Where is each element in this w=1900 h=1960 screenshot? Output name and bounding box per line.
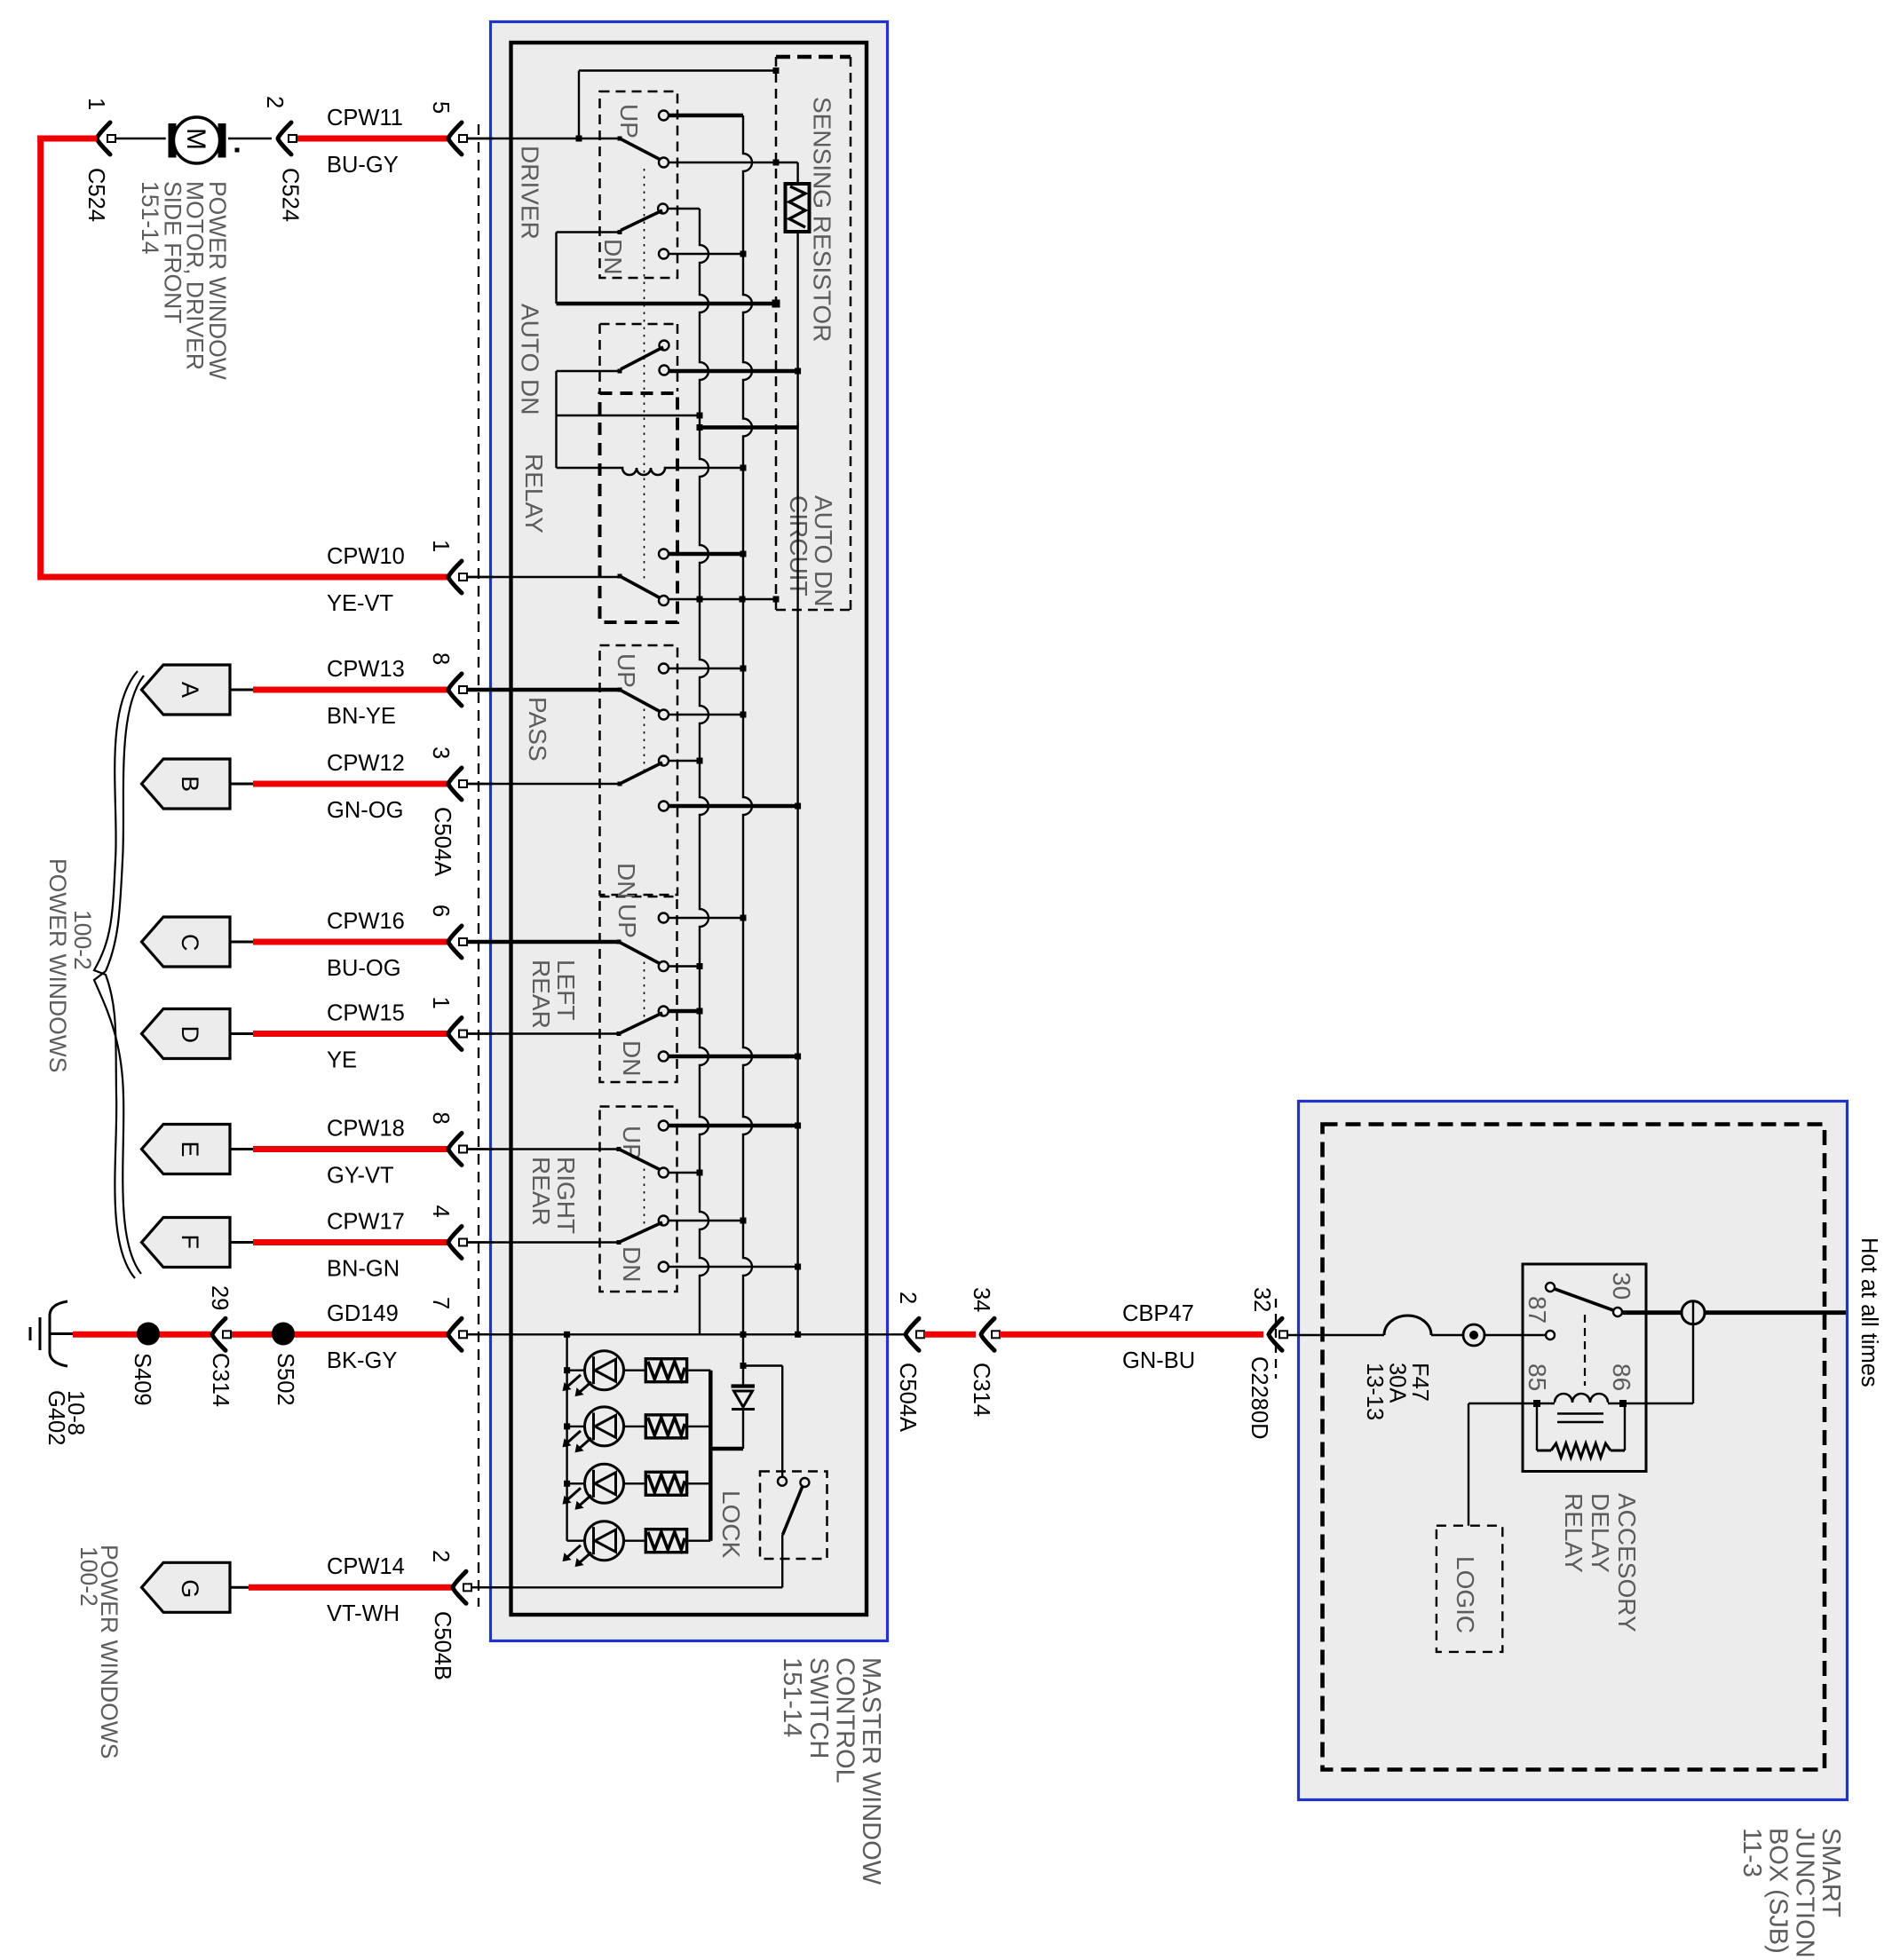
svg-text:DRIVER: DRIVER xyxy=(517,146,544,240)
fuse F47 30A xyxy=(1384,1316,1431,1335)
driver UP blade-tip contact xyxy=(659,158,669,168)
motor brush right xyxy=(218,123,226,158)
svg-text:CBP47: CBP47 xyxy=(1122,1301,1194,1326)
red wire to C314 xyxy=(924,1332,976,1338)
svg-text:AUTO DN: AUTO DN xyxy=(517,304,544,415)
svg-text:CPW11: CPW11 xyxy=(327,106,403,130)
RR DN blade-tip contact xyxy=(659,1216,669,1226)
wire CPW18 xyxy=(253,1146,448,1152)
relay coil xyxy=(1533,1400,1540,1407)
coil core line 2 xyxy=(1557,1421,1603,1424)
stub xyxy=(669,760,700,762)
RR DN blade xyxy=(619,1222,662,1243)
svg-text:LOCK: LOCK xyxy=(717,1490,745,1559)
svg-text:4: 4 xyxy=(428,1205,453,1218)
thick jog to diode branch xyxy=(710,1447,743,1451)
svg-text:10-8: 10-8 xyxy=(63,1390,88,1435)
svg-text:DN: DN xyxy=(599,239,627,274)
connector terminal A xyxy=(142,665,231,715)
svg-text:C: C xyxy=(177,934,203,952)
thick stub auto-dn xyxy=(669,369,798,374)
svg-text:C2280D: C2280D xyxy=(1247,1356,1271,1440)
wire 86 to circle-junction xyxy=(1623,1403,1693,1404)
pass UP contact xyxy=(659,664,669,674)
relay armature dashed xyxy=(1584,1315,1586,1386)
svg-text:SENSING RESISTOR: SENSING RESISTOR xyxy=(809,97,836,342)
pass DN blade xyxy=(620,763,662,784)
driver DN contact xyxy=(659,249,669,259)
relay pivot terminal xyxy=(1546,1283,1555,1292)
stub driver DN xyxy=(669,253,743,255)
LED 4 xyxy=(567,1539,585,1541)
connector C314 pin 34 xyxy=(981,1318,994,1350)
AUTO DN CIRCUIT dashed box xyxy=(776,55,851,59)
connector pin 6 xyxy=(448,926,462,958)
junction b2 coil xyxy=(740,465,747,471)
svg-text:S409: S409 xyxy=(130,1353,154,1406)
junction lock branch xyxy=(740,1363,747,1369)
auto-dn blade-tip contact xyxy=(660,341,669,351)
svg-text:YE: YE xyxy=(327,1048,357,1073)
svg-text:CPW17: CPW17 xyxy=(327,1210,405,1235)
svg-text:5: 5 xyxy=(428,101,453,114)
lock to CPW14 xyxy=(781,1535,783,1587)
svg-text:BN-YE: BN-YE xyxy=(327,704,396,729)
svg-text:VT-WH: VT-WH xyxy=(327,1601,400,1626)
svg-text:BN-GN: BN-GN xyxy=(327,1257,400,1282)
thick wire pin30 out xyxy=(1622,1310,1682,1315)
LR UP blade xyxy=(619,942,662,965)
master window control switch outer box xyxy=(491,22,888,1641)
splice S409 xyxy=(137,1323,160,1346)
svg-text:CPW15: CPW15 xyxy=(327,1001,405,1026)
svg-text:LEFTREAR: LEFTREAR xyxy=(527,960,580,1029)
svg-text:1: 1 xyxy=(83,98,108,110)
lock switch branch wire xyxy=(743,1364,782,1366)
svg-text:2: 2 xyxy=(428,1550,453,1562)
connector pin 4 xyxy=(448,1227,462,1259)
relay dashed box (bold) xyxy=(600,393,678,622)
resistor LED2 xyxy=(645,1415,686,1438)
connector C2280D pin 32 xyxy=(1269,1318,1282,1350)
SJB inner dashed box xyxy=(1323,1125,1825,1770)
svg-text:AUTO DNCIRCUIT: AUTO DNCIRCUIT xyxy=(785,495,837,607)
wire CPW14 inside box xyxy=(467,1586,782,1588)
smart junction box (SJB) outer box xyxy=(1299,1102,1848,1800)
connector C314 inline xyxy=(212,1318,226,1350)
connector pin 8 xyxy=(448,1134,462,1166)
wire CPW16 xyxy=(253,939,448,945)
thick wire auto-dn circuit feed xyxy=(700,425,798,430)
junction b2 xyxy=(740,251,747,257)
svg-text:CPW18: CPW18 xyxy=(327,1117,405,1142)
LR UP blade-tip contact xyxy=(659,961,669,971)
auto-dn blade xyxy=(621,347,663,369)
svg-text:POWER WINDOWS: POWER WINDOWS xyxy=(44,858,71,1072)
relay terminal 87 xyxy=(1546,1331,1555,1340)
svg-text:S502: S502 xyxy=(273,1353,297,1406)
wire CPW14 xyxy=(249,1585,453,1591)
svg-text:2: 2 xyxy=(262,96,287,108)
auto-dn contact xyxy=(660,366,669,375)
svg-text:CPW12: CPW12 xyxy=(327,751,405,776)
diode D1 xyxy=(742,1334,744,1385)
wire left loop lower xyxy=(555,371,557,468)
wire GD149 inside box xyxy=(467,1333,866,1335)
stub driver DN tip xyxy=(669,208,700,209)
svg-text:CPW14: CPW14 xyxy=(327,1554,405,1579)
junction at auto-dn box xyxy=(773,67,780,74)
wire auto-dn pivot loop xyxy=(557,370,621,372)
grommet xyxy=(1463,1324,1484,1346)
RR UP blade-tip contact xyxy=(659,1168,669,1178)
svg-text:LOGIC: LOGIC xyxy=(1452,1556,1479,1633)
LED feed rail xyxy=(566,1334,567,1540)
lock switch dashed box xyxy=(760,1472,827,1560)
svg-text:DN: DN xyxy=(618,1040,645,1076)
connector pin 3 xyxy=(448,768,462,800)
svg-text:B: B xyxy=(177,776,203,792)
RR UP blade xyxy=(619,1150,662,1172)
stub RR DN xyxy=(669,1266,798,1268)
mech link dotted pass xyxy=(644,701,645,772)
wire CPW11 inside box xyxy=(467,138,620,139)
connector pin 1 xyxy=(448,1018,462,1050)
connector pin 8 xyxy=(448,674,462,706)
svg-text:BK-GY: BK-GY xyxy=(327,1348,397,1373)
pass UP blade-tip contact xyxy=(659,710,669,720)
bus rail b1 xyxy=(700,209,709,1334)
relay contact xyxy=(659,549,669,559)
connector terminal F xyxy=(142,1218,231,1268)
wire row 468 xyxy=(557,415,701,416)
wire CPW18 inside box xyxy=(467,1148,619,1150)
wire 85 to logic xyxy=(1469,1403,1537,1404)
svg-text:CPW16: CPW16 xyxy=(327,909,405,934)
thick stub pass DN xyxy=(669,804,798,809)
driver DN blade-tip contact xyxy=(658,204,668,214)
svg-text:CPW13: CPW13 xyxy=(327,657,405,682)
wire driver tip to sensing resistor xyxy=(669,162,798,163)
mech link dotted RR xyxy=(644,1161,645,1229)
wire into SJB xyxy=(1287,1334,1384,1336)
svg-text:C314: C314 xyxy=(208,1353,233,1407)
svg-text:GN-OG: GN-OG xyxy=(327,798,403,823)
master window control switch inner box xyxy=(511,43,867,1615)
LR DN contact xyxy=(659,1052,669,1062)
relay coil (master switch) xyxy=(557,468,744,475)
accessory delay relay box xyxy=(1523,1264,1646,1472)
ground stem xyxy=(50,1332,73,1335)
svg-text:1: 1 xyxy=(428,540,453,552)
right-rear switch dashed box xyxy=(600,1107,677,1292)
svg-text:30: 30 xyxy=(1608,1272,1635,1300)
RR UP contact xyxy=(659,1121,669,1131)
svg-text:BU-GY: BU-GY xyxy=(327,153,399,178)
wire CPW13 xyxy=(253,687,448,693)
junction r3 xyxy=(795,368,801,375)
LED collector rail (thick) xyxy=(709,1371,713,1541)
svg-text:GD149: GD149 xyxy=(327,1301,399,1326)
svg-text:6: 6 xyxy=(428,905,453,917)
connector C524 pin1 xyxy=(97,122,110,154)
svg-text:29: 29 xyxy=(207,1285,232,1310)
junction at auto-dn box edge xyxy=(772,300,780,308)
svg-text:M: M xyxy=(181,128,210,150)
connector dashes C2280D xyxy=(1275,1299,1277,1379)
svg-text:UP: UP xyxy=(615,104,643,138)
svg-text:DN: DN xyxy=(613,863,640,898)
connector pin 2 xyxy=(453,1571,466,1603)
svg-text:C524: C524 xyxy=(83,168,108,222)
auto-dn switch dashed box xyxy=(600,323,678,326)
wire riser xyxy=(578,71,580,139)
connector terminal D xyxy=(142,1009,231,1059)
motor circle xyxy=(174,117,220,163)
svg-text:GN-BU: GN-BU xyxy=(1122,1348,1195,1373)
mech link dotted LR xyxy=(644,954,645,1021)
thick wire driver DN to auto-dn circuit xyxy=(557,302,777,306)
driver UP/DN switch dashed box xyxy=(600,91,678,278)
svg-text:32: 32 xyxy=(1249,1287,1274,1312)
connector C524 pin2 xyxy=(278,122,291,154)
svg-text:1: 1 xyxy=(428,997,453,1009)
wire CPW12 xyxy=(253,781,448,787)
wire resistor top xyxy=(796,162,798,184)
LR DN blade xyxy=(619,1013,662,1034)
svg-text:D: D xyxy=(177,1026,203,1044)
wire GD149 to C504A xyxy=(866,1333,906,1335)
svg-text:Hot at all times: Hot at all times xyxy=(1856,1237,1881,1387)
wire CPW12 inside box xyxy=(467,783,620,785)
wire DN loop top xyxy=(557,231,621,233)
svg-text:UP: UP xyxy=(613,653,640,688)
lock switch xyxy=(778,1477,787,1486)
ground bar3 xyxy=(29,1327,32,1340)
svg-text:3: 3 xyxy=(428,747,453,759)
resistor LED4 xyxy=(645,1529,686,1553)
svg-text:87: 87 xyxy=(1524,1296,1551,1324)
thick stub driver UP xyxy=(669,114,743,118)
connector C504 dashed line xyxy=(478,124,479,1607)
connector terminal C xyxy=(142,917,231,967)
resistor zigzag xyxy=(1551,1443,1611,1458)
svg-text:G: G xyxy=(177,1579,203,1598)
ground G402 xyxy=(50,1301,67,1366)
pass UP blade xyxy=(620,690,662,713)
diode cathode bar xyxy=(732,1408,755,1411)
diode anode bar xyxy=(732,1384,756,1387)
circled junction symbol xyxy=(1682,1301,1705,1324)
svg-text:C504A: C504A xyxy=(895,1363,920,1432)
power window motor driver side front xyxy=(113,138,166,139)
LED 1 xyxy=(564,1367,570,1373)
driver UP contact xyxy=(659,111,669,121)
connector terminal E xyxy=(142,1125,231,1174)
junction b1 xyxy=(697,413,703,419)
svg-text:F: F xyxy=(177,1235,203,1250)
bus rail b2 xyxy=(743,115,752,1334)
thick wire hot at all times xyxy=(1705,1310,1846,1315)
relay internal resistor xyxy=(1536,1403,1538,1450)
svg-text:7: 7 xyxy=(428,1297,453,1309)
svg-text:DN: DN xyxy=(618,1246,645,1282)
resistor LED3 xyxy=(645,1472,686,1495)
connector terminal G xyxy=(142,1562,231,1612)
svg-text:PASS: PASS xyxy=(524,697,551,762)
connector C504A pin 2 (right side) xyxy=(906,1318,919,1350)
svg-text:UP: UP xyxy=(614,904,641,938)
mechanical link dotted driver xyxy=(644,169,645,581)
LR UP contact xyxy=(659,913,669,923)
top rail wire xyxy=(579,69,776,71)
wire CPW15 xyxy=(253,1031,448,1037)
red wire GD149 xyxy=(73,1332,212,1338)
red wire CBP47 xyxy=(1000,1332,1263,1338)
svg-text:100-2: 100-2 xyxy=(69,910,96,970)
svg-text:BU-OG: BU-OG xyxy=(327,956,401,981)
connector pin 7 xyxy=(448,1318,462,1350)
thick stub LR DN xyxy=(669,1055,798,1059)
svg-text:RELAY: RELAY xyxy=(520,454,548,533)
connector terminal B xyxy=(142,759,231,809)
driver DN blade xyxy=(621,210,662,231)
wire CPW15 inside box xyxy=(467,1032,619,1034)
connector pin 1 xyxy=(448,561,462,593)
rail r3 xyxy=(796,232,798,1334)
ground bar2 xyxy=(39,1317,42,1350)
junction CPW11/top rail xyxy=(576,136,582,142)
wire CPW17 inside box xyxy=(467,1241,619,1243)
splice S502 xyxy=(272,1323,295,1346)
svg-text:C504B: C504B xyxy=(430,1611,455,1680)
svg-text:C504A: C504A xyxy=(430,807,455,876)
wire CPW13 inside box xyxy=(467,688,620,692)
LED 3 xyxy=(564,1481,570,1487)
coil core line 1 xyxy=(1557,1412,1603,1415)
motor brush left xyxy=(169,123,177,158)
pass DN contact xyxy=(659,802,669,811)
thick stub xyxy=(669,1009,700,1014)
svg-text:85: 85 xyxy=(1524,1363,1551,1391)
svg-text:YE-VT: YE-VT xyxy=(327,591,393,616)
svg-text:RIGHTREAR: RIGHTREAR xyxy=(527,1157,580,1234)
pass DN blade-tip contact xyxy=(659,756,669,766)
RR DN contact xyxy=(659,1262,669,1272)
relay contact 30 xyxy=(1613,1308,1622,1316)
svg-text:C314: C314 xyxy=(969,1363,994,1417)
motor polarity dot xyxy=(235,148,240,153)
red loop wire to CPW10 xyxy=(37,136,44,578)
relay switch blade xyxy=(620,576,662,599)
wire relay tip row xyxy=(669,598,776,600)
LR DN blade-tip contact xyxy=(659,1007,669,1016)
red wire CPW11 segment xyxy=(292,136,448,142)
lock blade xyxy=(783,1486,804,1535)
LED 2 xyxy=(564,1423,570,1429)
resistor LED1 xyxy=(645,1359,686,1382)
svg-text:8: 8 xyxy=(428,1112,453,1125)
left-rear switch dashed box xyxy=(600,897,677,1082)
wire DN loop left xyxy=(555,233,557,304)
svg-text:C524: C524 xyxy=(278,168,303,222)
thick stub RR UP xyxy=(669,1124,798,1128)
pass switch dashed box xyxy=(600,645,678,895)
connector pin 5 xyxy=(448,122,462,154)
svg-text:CPW10: CPW10 xyxy=(327,544,405,569)
svg-text:86: 86 xyxy=(1608,1363,1635,1391)
svg-text:E: E xyxy=(177,1142,203,1158)
sensing resistor xyxy=(786,184,810,232)
relay blade-tip contact xyxy=(659,596,669,605)
driver UP switch blade xyxy=(620,138,662,161)
svg-text:2: 2 xyxy=(895,1292,920,1304)
stub xyxy=(669,714,743,715)
svg-text:GY-VT: GY-VT xyxy=(327,1164,394,1189)
svg-text:100-2: 100-2 xyxy=(75,1546,102,1607)
wire CPW17 xyxy=(253,1239,448,1245)
LOGIC dashed box xyxy=(1437,1526,1502,1652)
relay blade xyxy=(1555,1289,1613,1310)
svg-text:8: 8 xyxy=(428,652,453,665)
wire CPW16 inside box xyxy=(467,940,619,944)
svg-text:A: A xyxy=(177,682,203,698)
svg-text:34: 34 xyxy=(969,1287,994,1312)
wire CPW10 inside box xyxy=(467,576,620,578)
brace 100-2 POWER WINDOWS xyxy=(94,671,138,1278)
